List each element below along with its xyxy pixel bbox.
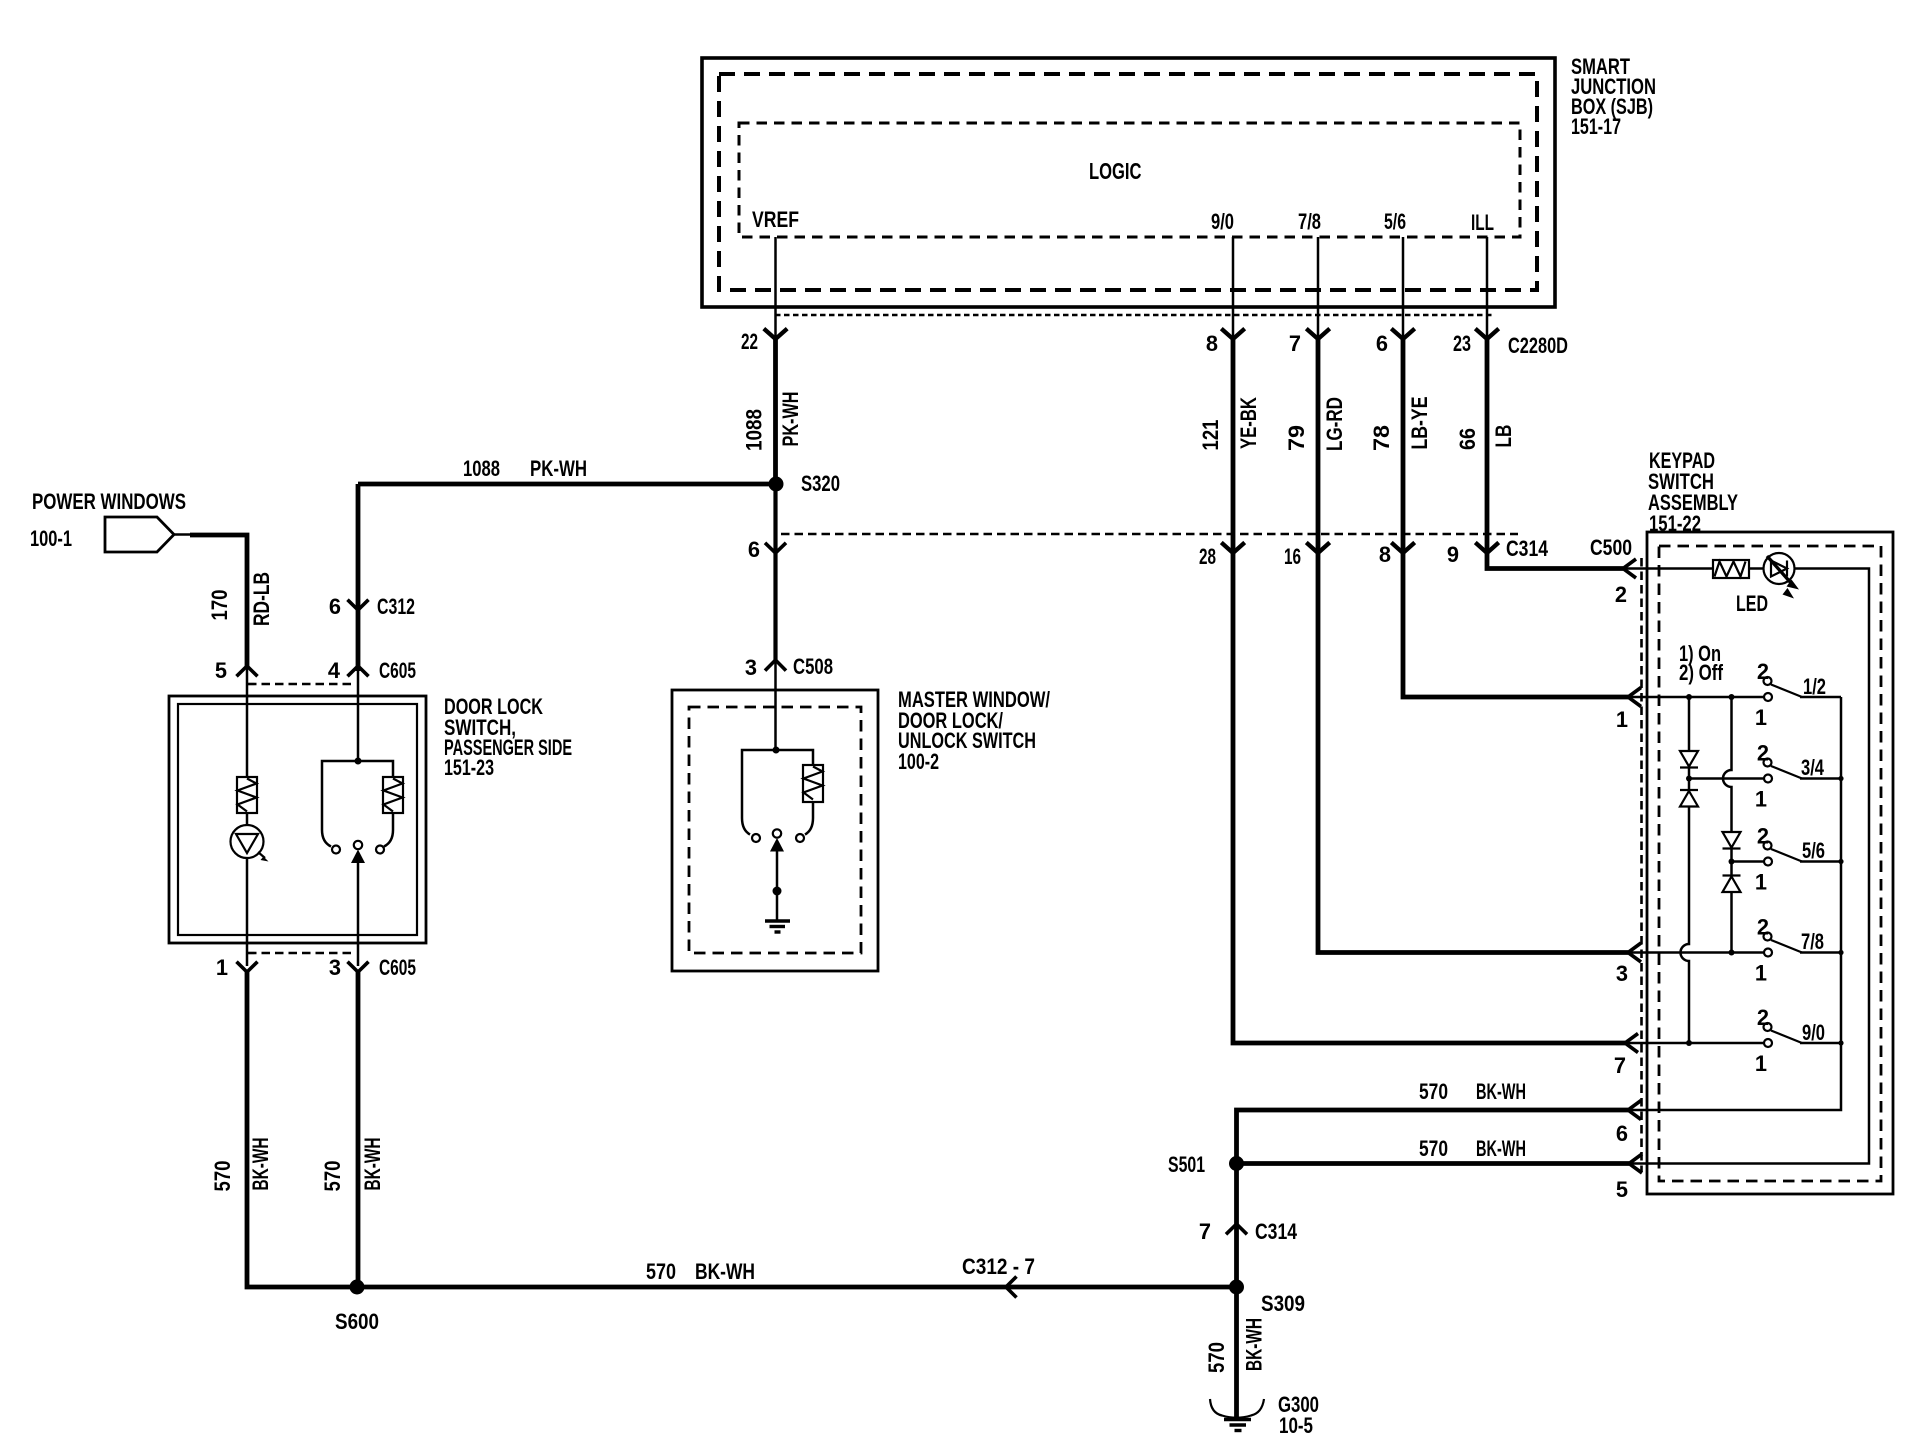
svg-text:1: 1 [1755,870,1767,895]
splice S600 [350,1280,365,1295]
arrow left pin 7 [1625,1034,1638,1053]
svg-text:C314: C314 [1255,1219,1297,1244]
connector C605 top dashed line [248,683,356,686]
svg-text:8: 8 [1206,331,1218,356]
diode D4 [1723,876,1741,893]
svg-text:100-1: 100-1 [30,526,72,551]
wire 5/6 stub [1402,237,1405,338]
svg-text:6: 6 [748,537,760,562]
junction dot chain2 top [1729,694,1735,700]
switch 1/2 [1764,677,1803,701]
master right contact lead [805,802,813,835]
wire 570 BK-WH right [356,970,361,1287]
junction dot bus row78 [1838,950,1843,955]
junction dot chain2 row78 [1729,950,1735,956]
svg-text:121: 121 [1198,420,1223,451]
arrow down pin 9 [1475,543,1498,554]
lamp symbol [231,813,269,862]
master left contact lead [742,818,750,835]
wire 170 RD-LB [174,533,192,536]
switch left contact [332,846,340,854]
arrow down pin 6 [1391,329,1414,339]
wire switch feed inside box [357,664,360,761]
svg-text:170: 170 [207,590,232,621]
svg-text:C314: C314 [1506,536,1548,561]
wire row 1/2 right [1800,696,1841,699]
master left contact [752,834,760,842]
svg-text:3/4: 3/4 [1801,755,1824,780]
wire row 7/8 left [1628,951,1764,954]
wire row 3/4 right [1800,777,1841,780]
diode D1 [1680,751,1698,768]
svg-text:7/8: 7/8 [1801,929,1824,954]
wire 7/8 stub [1317,237,1320,338]
svg-text:9: 9 [1447,542,1459,567]
master window switch outer box [672,690,878,971]
wire S320 to C508 [773,484,777,660]
wire 9/0 stub [1232,237,1235,338]
LED symbol [1764,553,1800,599]
svg-text:5: 5 [215,658,227,683]
svg-text:C605: C605 [379,658,416,683]
arrow down pin 22 [764,329,787,339]
svg-text:570: 570 [210,1161,235,1192]
svg-text:C312: C312 [377,594,415,619]
svg-text:3: 3 [329,955,341,980]
svg-text:4: 4 [328,658,340,683]
junction dot ground wire [773,887,782,896]
junction dot bus row90 [1838,1040,1843,1045]
svg-text:78: 78 [1369,425,1394,451]
svg-text:6: 6 [1376,331,1388,356]
svg-text:66: 66 [1455,428,1480,450]
wire row 9/0 left [1625,1042,1764,1045]
arrow left pin 5 [1629,1154,1642,1173]
switch bracket master [742,750,813,818]
svg-text:7: 7 [1614,1053,1626,1078]
svg-text:9/0: 9/0 [1211,209,1234,234]
svg-text:5/6: 5/6 [1384,209,1406,234]
switch 9/0 [1764,1023,1803,1047]
diode chain 1 mid wire [1688,768,1691,791]
splice S501 [1229,1156,1244,1171]
svg-text:BK-WH: BK-WH [248,1138,273,1191]
SJB outer dashed box [719,74,1537,290]
diode chain 2 lower wire [1730,892,1733,953]
power windows connector flag [105,517,174,552]
switch pole circle [354,841,362,849]
svg-text:1: 1 [1755,705,1767,730]
svg-text:C312 - 7: C312 - 7 [962,1254,1035,1279]
wire 79 LG-RD [1318,337,1628,953]
door lock switch passenger outer box [169,696,426,943]
wire 121 YE-BK [1233,337,1625,1043]
svg-text:BK-WH: BK-WH [1476,1079,1526,1104]
wire 1088 PK-WH horizontal [358,482,778,487]
wire VREF stub [774,237,777,338]
arrow down pin 23 [1475,329,1498,339]
arrow left pin 1 [1628,688,1641,707]
wire 78 LB-YE [1403,337,1628,697]
switch right contact [376,846,384,854]
arrow down pin 6 C312 [348,600,369,610]
wire row 3/4 [1689,777,1764,780]
svg-text:5: 5 [1616,1177,1628,1202]
svg-text:PK-WH: PK-WH [530,456,587,481]
wire S309 to G300 [1234,1287,1239,1419]
junction dot master bracket top [773,747,780,754]
wire row 9/0 right [1800,1042,1841,1045]
connector C314 dashed line [781,533,1518,536]
svg-text:8: 8 [1379,542,1391,567]
junction dot chain1 top [1686,694,1692,700]
svg-text:BK-WH: BK-WH [1476,1136,1526,1161]
wire LED to return line [1629,569,1869,1164]
svg-text:1/2: 1/2 [1803,674,1826,699]
junction dot chain1 row90 [1686,1040,1692,1046]
arrow down pin 8 [1221,329,1244,339]
svg-text:2) Off: 2) Off [1679,660,1724,685]
arrow up pin 4 C605 [348,666,369,676]
svg-text:10-5: 10-5 [1279,1413,1313,1438]
arrow down pin 3 [348,962,369,972]
svg-text:7: 7 [1289,331,1301,356]
svg-text:BK-WH: BK-WH [695,1259,755,1284]
svg-text:2: 2 [1615,582,1627,607]
svg-text:100-2: 100-2 [898,749,939,774]
wire LED feed [1623,567,1714,570]
svg-text:16: 16 [1284,544,1301,569]
master right contact [796,834,804,842]
keypad switch assembly label [1648,448,1738,536]
wire row 5/6 [1732,860,1765,863]
keypad inner dashed box [1659,546,1881,1181]
label SMART JUNCTION BOX (SJB) 151-17 [1571,54,1656,139]
svg-text:7/8: 7/8 [1298,209,1321,234]
SJB logic dashed box [739,123,1520,237]
svg-text:570: 570 [1419,1079,1448,1104]
svg-text:YE-BK: YE-BK [1236,397,1261,449]
wire S600 to S309 [357,1285,1237,1290]
svg-text:28: 28 [1199,544,1216,569]
switch left contact lead [322,830,331,847]
svg-text:151-23: 151-23 [444,755,494,780]
svg-text:1088: 1088 [463,456,500,481]
wire pole to pin 3 [357,861,360,966]
label MASTER WINDOW DOOR LOCK UNLOCK SWITCH 100-2 [898,687,1050,774]
keypad right bus [1628,697,1841,1110]
svg-text:VREF: VREF [752,207,799,232]
svg-text:LED: LED [1736,591,1768,616]
svg-text:151-17: 151-17 [1571,114,1621,139]
master pole circle [773,829,781,837]
switch 3/4 [1764,759,1803,783]
svg-text:ILL: ILL [1471,210,1494,235]
svg-text:C605: C605 [379,955,416,980]
svg-text:22: 22 [741,329,758,354]
wire resistor to LED [1749,567,1764,570]
wire S501 to S309 [1234,1164,1239,1288]
svg-text:7: 7 [1199,1219,1211,1244]
switch 5/6 [1764,842,1803,866]
svg-text:2: 2 [1757,741,1769,766]
diode chain 2 upper wire with hop [1723,697,1732,832]
svg-text:LG-RD: LG-RD [1322,397,1347,451]
resistor switch side [383,777,403,813]
junction dot chain2 row56 [1729,859,1735,865]
arrow down pin 6 S320 branch [765,543,786,553]
svg-text:POWER WINDOWS: POWER WINDOWS [32,489,186,514]
switch 7/8 [1764,933,1803,957]
svg-text:2: 2 [1757,915,1769,940]
svg-text:C500: C500 [1590,535,1632,560]
svg-text:PK-WH: PK-WH [778,392,803,447]
svg-text:9/0: 9/0 [1802,1020,1825,1045]
resistor lamp side [237,777,257,813]
svg-text:6: 6 [329,594,341,619]
svg-text:570: 570 [1419,1136,1448,1161]
svg-text:570: 570 [646,1259,676,1284]
svg-text:1: 1 [1755,961,1767,986]
svg-text:RD-LB: RD-LB [249,572,274,626]
master pole arrow [770,838,784,852]
door lock switch inner box [178,704,417,935]
wire 570 BK-WH pin5 to S501 [1237,1161,1630,1166]
wire 1088 PK-WH vertical [773,337,778,484]
arrow down pin 7 [1306,329,1329,339]
svg-text:79: 79 [1284,425,1309,451]
label G300 10-5 [1278,1392,1319,1438]
svg-text:3: 3 [745,655,757,680]
svg-text:2: 2 [1757,824,1769,849]
arrow up pin 3 C508 [765,660,786,671]
arrow down pin 16 [1306,543,1329,554]
svg-text:1: 1 [216,955,228,980]
wire ILL stub [1486,237,1489,338]
switch pole arrow [351,850,365,864]
resistor LED [1713,560,1749,578]
svg-text:S309: S309 [1261,1291,1305,1316]
junction dot chain1 row34 [1686,776,1692,782]
wire C312 branch vertical [356,484,361,671]
svg-text:23: 23 [1453,331,1471,356]
wire lamp feed inside box [246,664,249,777]
diode D3 [1723,832,1741,849]
junction dot bus row34 [1838,776,1843,781]
svg-text:2: 2 [1757,659,1769,684]
diode chain 1 lower wire with hop [1681,807,1690,1044]
switch right contact lead [384,813,393,847]
splice S309 [1229,1280,1244,1295]
master window switch dashed box [689,707,861,953]
svg-text:C508: C508 [793,654,833,679]
svg-text:LB: LB [1491,425,1516,448]
wire row 5/6 right [1800,860,1841,863]
svg-text:1: 1 [1755,1051,1767,1076]
svg-text:BK-WH: BK-WH [360,1138,385,1191]
junction dot bus row56 [1838,859,1843,864]
svg-text:1: 1 [1616,707,1628,732]
svg-text:2: 2 [1757,1005,1769,1030]
diode chain 1 upper wire [1688,697,1691,751]
ground G300 [1210,1399,1264,1431]
diode D2 [1680,790,1698,807]
svg-text:S600: S600 [335,1309,379,1334]
arrow left C312-7 [1006,1277,1017,1298]
arrow left pin 6 [1628,1101,1641,1120]
wire 66 LB [1487,337,1623,569]
svg-text:570: 570 [1204,1342,1229,1373]
wire row 1/2 left [1628,696,1764,699]
resistor master switch [803,765,823,802]
svg-text:3: 3 [1616,961,1628,986]
wire 570 BK-WH pin6 to S501 [1237,1110,1629,1164]
connector C500 dashed line [1640,558,1643,1172]
smart junction box SJB outer solid box [702,58,1555,307]
svg-text:6: 6 [1616,1121,1628,1146]
wire 570 BK-WH left [247,970,360,1287]
arrow down pin 28 [1221,543,1244,554]
svg-text:LB-YE: LB-YE [1407,397,1432,450]
wire lamp to pin 1 [246,858,249,966]
wire row 7/8 right [1800,951,1841,954]
switch bracket passenger [322,761,393,830]
arrow up pin 7 C314 [1226,1224,1247,1234]
svg-text:BK-WH: BK-WH [1242,1318,1267,1371]
svg-text:570: 570 [320,1161,345,1192]
splice S320 [769,477,784,492]
ground symbol master switch [765,921,790,932]
junction dot bracket top [355,758,362,765]
svg-text:LOGIC: LOGIC [1089,158,1142,184]
diode chain 2 mid wire [1730,849,1733,876]
label 1) On 2) Off [1679,641,1724,685]
svg-text:1: 1 [1755,787,1767,812]
arrow left pin 2 [1623,559,1636,578]
connector C2280D dashed line [775,314,1493,316]
connector C605 bottom dashed line [248,952,356,955]
svg-text:S501: S501 [1168,1152,1205,1177]
keypad outer solid box [1647,532,1893,1194]
arrow left pin 3 [1628,943,1641,962]
arrow down pin 1 [237,962,258,972]
label DOOR LOCK SWITCH PASSENGER SIDE 151-23 [444,694,572,780]
arrow up pin 5 [237,666,258,676]
wire pole to ground [776,849,779,921]
arrow down pin 8 [1391,543,1414,554]
svg-text:S320: S320 [801,471,840,496]
svg-text:C2280D: C2280D [1508,333,1568,358]
svg-text:1088: 1088 [742,409,767,451]
svg-text:5/6: 5/6 [1802,838,1825,863]
